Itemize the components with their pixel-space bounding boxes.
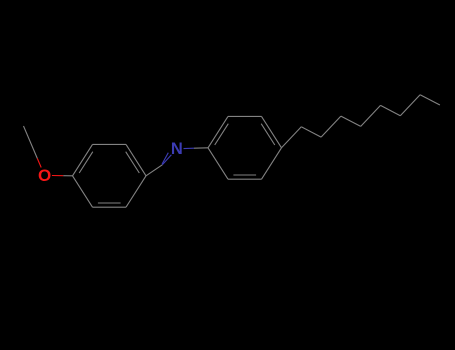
octyl chain [282, 95, 440, 148]
left benzene ring (4-methoxyphenyl) [73, 144, 147, 207]
bond N to right ring [184, 147, 209, 150]
bond O to left ring [52, 175, 73, 177]
svg-text:O: O [38, 166, 51, 185]
bond left ring to imine CH [146, 165, 162, 176]
right benzene ring (4-octylphenyl) [208, 116, 282, 179]
svg-text:N: N [171, 140, 183, 158]
methyl CH3-O bond [24, 126, 42, 168]
imine CH=N double bond [162, 153, 171, 165]
